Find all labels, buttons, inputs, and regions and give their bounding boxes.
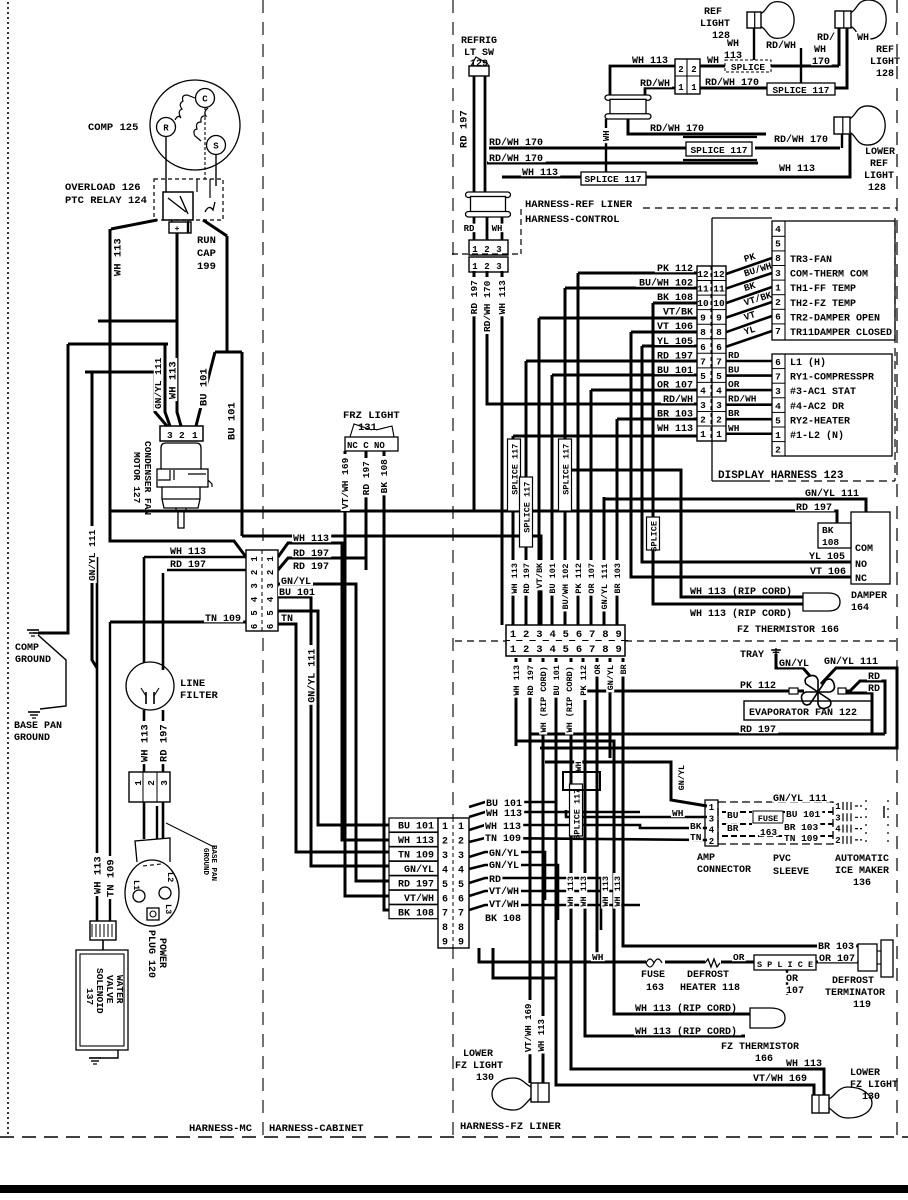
svg-text:1: 1 bbox=[835, 802, 841, 812]
svg-text:10: 10 bbox=[697, 298, 709, 309]
svg-text:1: 1 bbox=[775, 282, 781, 293]
svg-text:GN/YL 111: GN/YL 111 bbox=[600, 564, 610, 610]
svg-text:5: 5 bbox=[250, 610, 260, 615]
svg-text:BU 101: BU 101 bbox=[398, 822, 434, 833]
svg-text:RD: RD bbox=[728, 350, 740, 361]
svg-text:6: 6 bbox=[775, 312, 781, 323]
svg-text:CONDENSER FAN: CONDENSER FAN bbox=[142, 441, 153, 515]
svg-text:TH1-FF TEMP: TH1-FF TEMP bbox=[790, 284, 856, 295]
svg-text:TN 109: TN 109 bbox=[485, 834, 521, 845]
svg-text:LIGHT: LIGHT bbox=[870, 57, 900, 68]
svg-text:WH: WH bbox=[707, 56, 719, 67]
svg-text:1: 1 bbox=[250, 556, 260, 562]
svg-text:2: 2 bbox=[709, 837, 714, 847]
svg-text:2: 2 bbox=[775, 445, 781, 456]
svg-text:FILTER: FILTER bbox=[180, 690, 219, 702]
svg-text:DISPLAY HARNESS 123: DISPLAY HARNESS 123 bbox=[718, 470, 844, 482]
svg-text:ICE MAKER: ICE MAKER bbox=[835, 866, 889, 877]
svg-text:WH 113 (RIP CORD): WH 113 (RIP CORD) bbox=[635, 1003, 737, 1015]
svg-text:2: 2 bbox=[835, 836, 840, 846]
svg-text:WH: WH bbox=[492, 224, 503, 234]
svg-text:9: 9 bbox=[458, 938, 464, 949]
svg-text:WH 113: WH 113 bbox=[139, 724, 151, 762]
svg-text:3: 3 bbox=[536, 644, 542, 656]
svg-text:WH: WH bbox=[728, 423, 740, 434]
svg-text:2: 2 bbox=[691, 65, 696, 75]
svg-text:WH 113: WH 113 bbox=[510, 563, 520, 594]
svg-text:7: 7 bbox=[775, 326, 781, 337]
svg-text:1: 1 bbox=[472, 245, 478, 255]
svg-text:7: 7 bbox=[716, 356, 722, 367]
svg-text:WH 113: WH 113 bbox=[497, 280, 508, 315]
svg-text:GN/YL 111: GN/YL 111 bbox=[773, 793, 827, 805]
svg-text:WH 113: WH 113 bbox=[632, 56, 668, 67]
svg-text:BR 103: BR 103 bbox=[818, 942, 854, 953]
svg-text:8: 8 bbox=[602, 629, 608, 641]
svg-text:9: 9 bbox=[615, 644, 621, 656]
svg-text:WH 113: WH 113 bbox=[167, 361, 179, 399]
svg-text:RD 197: RD 197 bbox=[796, 503, 832, 514]
svg-text:FRZ LIGHT: FRZ LIGHT bbox=[343, 410, 400, 422]
svg-text:8: 8 bbox=[442, 923, 448, 934]
svg-text:12: 12 bbox=[713, 269, 725, 280]
svg-text:5: 5 bbox=[775, 415, 781, 426]
svg-text:4: 4 bbox=[266, 596, 276, 602]
svg-text:3: 3 bbox=[709, 814, 714, 824]
svg-text:BK: BK bbox=[822, 525, 834, 536]
svg-text:BK 108: BK 108 bbox=[657, 293, 693, 304]
svg-text:4: 4 bbox=[250, 596, 260, 602]
svg-text:VT/WH 169: VT/WH 169 bbox=[524, 1004, 534, 1053]
svg-text:HARNESS-CONTROL: HARNESS-CONTROL bbox=[525, 214, 620, 226]
svg-text:BK 108: BK 108 bbox=[485, 914, 521, 925]
svg-text:1: 1 bbox=[678, 83, 684, 93]
svg-text:TR2-DAMPER OPEN: TR2-DAMPER OPEN bbox=[790, 313, 880, 324]
svg-text:6: 6 bbox=[442, 894, 448, 905]
svg-text:BK 108: BK 108 bbox=[398, 908, 434, 919]
svg-text:REF: REF bbox=[876, 45, 894, 56]
svg-text:RD 197: RD 197 bbox=[526, 665, 536, 696]
svg-text:WH: WH bbox=[727, 39, 739, 50]
svg-text:RD/WH: RD/WH bbox=[766, 40, 796, 52]
svg-text:7: 7 bbox=[589, 644, 595, 656]
svg-text:166: 166 bbox=[755, 1054, 773, 1065]
svg-text:6: 6 bbox=[458, 894, 464, 905]
svg-text:COM-THERM COM: COM-THERM COM bbox=[790, 270, 868, 281]
svg-text:OR 107: OR 107 bbox=[657, 380, 693, 391]
svg-text:OR: OR bbox=[786, 974, 798, 985]
svg-text:GROUND: GROUND bbox=[14, 733, 50, 744]
svg-text:PK 112: PK 112 bbox=[579, 665, 589, 696]
svg-text:PVC: PVC bbox=[773, 854, 791, 865]
svg-text:REFRIG: REFRIG bbox=[461, 36, 497, 47]
svg-text:BU 101: BU 101 bbox=[552, 665, 562, 696]
svg-text:RD/WH: RD/WH bbox=[640, 78, 670, 90]
svg-text:RD: RD bbox=[868, 672, 880, 683]
svg-text:GN/YL: GN/YL bbox=[489, 860, 519, 872]
svg-text:163: 163 bbox=[646, 983, 664, 994]
svg-text:1: 1 bbox=[700, 429, 706, 440]
svg-text:2: 2 bbox=[147, 780, 157, 785]
svg-text:1: 1 bbox=[266, 556, 276, 562]
svg-text:WH: WH bbox=[814, 45, 826, 56]
svg-text:RD/WH 170: RD/WH 170 bbox=[489, 137, 543, 149]
svg-text:BR 103: BR 103 bbox=[613, 563, 623, 594]
svg-text:WH: WH bbox=[602, 130, 612, 141]
svg-text:3: 3 bbox=[458, 851, 464, 862]
svg-text:7: 7 bbox=[442, 909, 448, 920]
svg-text:HARNESS-REF LINER: HARNESS-REF LINER bbox=[525, 199, 633, 211]
svg-text:136: 136 bbox=[853, 878, 871, 889]
svg-text:2: 2 bbox=[442, 836, 448, 847]
svg-text:4: 4 bbox=[549, 629, 555, 641]
svg-text:SPLICE 117: SPLICE 117 bbox=[510, 444, 520, 495]
svg-text:RD/WH: RD/WH bbox=[663, 394, 693, 406]
svg-text:PTC RELAY 124: PTC RELAY 124 bbox=[65, 195, 147, 207]
svg-text:4: 4 bbox=[709, 826, 715, 836]
svg-text:6: 6 bbox=[775, 357, 781, 368]
svg-text:WH 113: WH 113 bbox=[485, 822, 521, 833]
svg-text:4: 4 bbox=[549, 644, 555, 656]
svg-text:SPLICE 117: SPLICE 117 bbox=[584, 174, 641, 185]
svg-text:BASE PAN: BASE PAN bbox=[209, 845, 217, 881]
svg-text:NO: NO bbox=[855, 560, 867, 571]
svg-text:DEFROST: DEFROST bbox=[687, 970, 729, 981]
svg-text:3: 3 bbox=[167, 430, 173, 441]
svg-text:164: 164 bbox=[851, 603, 869, 614]
svg-text:BR 103: BR 103 bbox=[657, 410, 693, 421]
svg-text:WH 113: WH 113 bbox=[786, 1059, 822, 1070]
svg-text:199: 199 bbox=[197, 261, 216, 273]
svg-text:2: 2 bbox=[700, 415, 706, 426]
svg-text:BU 101: BU 101 bbox=[226, 402, 238, 440]
svg-text:BU 101: BU 101 bbox=[279, 588, 315, 599]
svg-text:3: 3 bbox=[266, 583, 276, 588]
svg-text:RD 197: RD 197 bbox=[469, 280, 480, 315]
svg-text:2: 2 bbox=[484, 262, 489, 272]
svg-text:GN/YL: GN/YL bbox=[281, 576, 311, 588]
svg-text:WH: WH bbox=[574, 761, 584, 771]
svg-text:CONNECTOR: CONNECTOR bbox=[697, 865, 751, 876]
svg-text:1: 1 bbox=[472, 262, 478, 272]
svg-text:WH 113: WH 113 bbox=[537, 1019, 547, 1051]
svg-text:OVERLOAD 126: OVERLOAD 126 bbox=[65, 182, 141, 194]
svg-text:170: 170 bbox=[812, 57, 830, 68]
svg-text:GN/YL 111: GN/YL 111 bbox=[805, 488, 859, 500]
svg-text:4: 4 bbox=[716, 385, 722, 396]
svg-text:2: 2 bbox=[458, 836, 464, 847]
svg-text:HARNESS-FZ LINER: HARNESS-FZ LINER bbox=[460, 1121, 562, 1133]
svg-text:GN/YL 111: GN/YL 111 bbox=[306, 649, 318, 703]
svg-text:WH 113: WH 113 bbox=[398, 836, 434, 847]
svg-text:AMP: AMP bbox=[697, 853, 715, 864]
svg-text:DEFROST: DEFROST bbox=[832, 976, 874, 987]
svg-text:VT/WH 169: VT/WH 169 bbox=[340, 457, 351, 509]
svg-text:BU 101: BU 101 bbox=[657, 366, 693, 377]
svg-text:LOWER: LOWER bbox=[463, 1049, 493, 1060]
svg-text:130: 130 bbox=[476, 1073, 494, 1084]
svg-text:9: 9 bbox=[615, 629, 621, 641]
svg-text:PK 112: PK 112 bbox=[657, 264, 693, 275]
svg-text:GROUND: GROUND bbox=[201, 848, 209, 876]
svg-text:128: 128 bbox=[868, 183, 886, 194]
svg-text:2: 2 bbox=[266, 570, 276, 575]
svg-text:11: 11 bbox=[697, 284, 709, 295]
svg-text:RD 197: RD 197 bbox=[458, 110, 470, 148]
svg-text:1: 1 bbox=[134, 780, 144, 786]
svg-text:RD: RD bbox=[489, 875, 501, 886]
svg-text:AUTOMATIC: AUTOMATIC bbox=[835, 854, 889, 865]
svg-text:107: 107 bbox=[786, 986, 804, 997]
svg-text:1: 1 bbox=[442, 822, 448, 833]
svg-text:3: 3 bbox=[496, 245, 501, 255]
svg-text:1: 1 bbox=[510, 629, 516, 641]
svg-text:5: 5 bbox=[700, 371, 706, 382]
svg-text:129: 129 bbox=[470, 59, 488, 70]
svg-text:VT/WH: VT/WH bbox=[404, 893, 434, 905]
svg-text:TRAY: TRAY bbox=[740, 650, 764, 661]
svg-text:2: 2 bbox=[179, 430, 185, 441]
svg-text:11: 11 bbox=[713, 284, 725, 295]
svg-text:3: 3 bbox=[775, 386, 781, 397]
svg-text:BASE PAN: BASE PAN bbox=[14, 721, 62, 732]
svg-text:HEATER 118: HEATER 118 bbox=[680, 983, 740, 994]
svg-text:2: 2 bbox=[523, 629, 529, 641]
svg-text:GN/YL 111: GN/YL 111 bbox=[824, 656, 878, 668]
svg-text:NC C NO: NC C NO bbox=[347, 441, 385, 451]
svg-text:SPLICE 117: SPLICE 117 bbox=[522, 482, 532, 533]
svg-text:8: 8 bbox=[602, 644, 608, 656]
svg-text:WH 113: WH 113 bbox=[579, 876, 589, 907]
svg-text:LIGHT: LIGHT bbox=[864, 171, 894, 182]
svg-text:R: R bbox=[163, 124, 169, 134]
svg-text:1: 1 bbox=[510, 644, 516, 656]
svg-text:TN 109: TN 109 bbox=[784, 833, 819, 844]
svg-text:7: 7 bbox=[458, 909, 464, 920]
svg-text:3: 3 bbox=[835, 813, 840, 823]
svg-text:FUSE: FUSE bbox=[758, 814, 778, 824]
svg-text:6: 6 bbox=[576, 629, 582, 641]
svg-text:WH 113: WH 113 bbox=[566, 876, 576, 907]
svg-text:SPLICE 117: SPLICE 117 bbox=[772, 85, 829, 96]
svg-text:6: 6 bbox=[576, 644, 582, 656]
svg-text:4: 4 bbox=[442, 865, 448, 876]
svg-text:RD 197: RD 197 bbox=[293, 549, 329, 560]
svg-text:BU: BU bbox=[728, 365, 740, 376]
svg-text:WH 113: WH 113 bbox=[779, 164, 815, 175]
svg-text:TERMINATOR: TERMINATOR bbox=[825, 988, 885, 999]
svg-text:OR: OR bbox=[593, 663, 603, 674]
svg-text:5: 5 bbox=[775, 239, 781, 250]
svg-text:5: 5 bbox=[442, 880, 448, 891]
svg-text:163: 163 bbox=[760, 827, 777, 838]
svg-text:5: 5 bbox=[716, 371, 722, 382]
svg-text:RD: RD bbox=[868, 684, 880, 695]
svg-text:RD 197: RD 197 bbox=[657, 351, 693, 362]
svg-text:OR: OR bbox=[733, 952, 745, 963]
svg-text:3: 3 bbox=[716, 400, 722, 411]
svg-text:7: 7 bbox=[775, 372, 781, 383]
svg-text:TN 109: TN 109 bbox=[205, 614, 241, 625]
svg-text:9: 9 bbox=[442, 938, 448, 949]
svg-text:137: 137 bbox=[84, 988, 95, 1005]
svg-text:8: 8 bbox=[700, 327, 706, 338]
svg-text:4: 4 bbox=[775, 401, 781, 412]
svg-text:LT SW: LT SW bbox=[464, 48, 494, 59]
svg-text:FZ THERMISTOR 166: FZ THERMISTOR 166 bbox=[737, 625, 839, 636]
svg-text:TH2-FZ TEMP: TH2-FZ TEMP bbox=[790, 299, 856, 310]
svg-text:5: 5 bbox=[563, 629, 569, 641]
svg-text:GN/YL 111: GN/YL 111 bbox=[153, 357, 164, 409]
svg-text:9: 9 bbox=[716, 313, 722, 324]
svg-text:1: 1 bbox=[691, 83, 697, 93]
svg-text:RY2-HEATER: RY2-HEATER bbox=[790, 416, 850, 427]
svg-text:2: 2 bbox=[523, 644, 529, 656]
svg-text:VT/WH: VT/WH bbox=[489, 886, 519, 898]
svg-text:+: + bbox=[175, 225, 180, 234]
svg-text:WH: WH bbox=[857, 33, 869, 44]
svg-text:SPLICE: SPLICE bbox=[731, 62, 766, 73]
svg-text:RD/WH 170: RD/WH 170 bbox=[705, 77, 759, 89]
svg-text:WH 113 (RIP CORD): WH 113 (RIP CORD) bbox=[635, 1026, 737, 1038]
svg-text:TN: TN bbox=[281, 614, 293, 625]
svg-text:EVAPORATOR FAN 122: EVAPORATOR FAN 122 bbox=[749, 708, 857, 719]
svg-text:2: 2 bbox=[678, 65, 683, 75]
svg-text:1: 1 bbox=[775, 430, 781, 441]
svg-text:RD/WH 170: RD/WH 170 bbox=[489, 153, 543, 165]
svg-text:HARNESS-CABINET: HARNESS-CABINET bbox=[269, 1123, 364, 1135]
svg-text:1: 1 bbox=[709, 803, 715, 813]
svg-text:TR3-FAN: TR3-FAN bbox=[790, 255, 832, 266]
svg-text:COMP: COMP bbox=[15, 643, 39, 654]
svg-text:WH (RIP CORD): WH (RIP CORD) bbox=[565, 666, 575, 732]
svg-text:10: 10 bbox=[713, 298, 725, 309]
svg-text:#1-L2 (N): #1-L2 (N) bbox=[790, 430, 844, 442]
svg-text:6: 6 bbox=[716, 342, 722, 353]
svg-text:S P L I C E: S P L I C E bbox=[757, 960, 813, 970]
svg-text:8: 8 bbox=[775, 253, 781, 264]
svg-text:RY1-COMPRESSPR: RY1-COMPRESSPR bbox=[790, 373, 874, 384]
svg-text:6: 6 bbox=[250, 624, 260, 629]
svg-text:5: 5 bbox=[458, 880, 464, 891]
svg-text:WH 113 (RIP CORD): WH 113 (RIP CORD) bbox=[690, 608, 792, 620]
svg-text:BR: BR bbox=[728, 408, 740, 419]
svg-text:REF: REF bbox=[704, 7, 722, 18]
svg-text:WH 113: WH 113 bbox=[112, 238, 124, 276]
svg-text:7: 7 bbox=[589, 629, 595, 641]
svg-text:PK 112: PK 112 bbox=[740, 681, 776, 692]
svg-text:CAP: CAP bbox=[197, 248, 216, 260]
svg-text:MOTOR 127: MOTOR 127 bbox=[131, 452, 142, 504]
svg-text:TR11DAMPER CLOSED: TR11DAMPER CLOSED bbox=[790, 328, 892, 339]
svg-text:BR 103: BR 103 bbox=[784, 822, 819, 833]
svg-text:3: 3 bbox=[700, 400, 706, 411]
svg-text:WH 113: WH 113 bbox=[293, 534, 329, 545]
svg-text:FUSE: FUSE bbox=[641, 970, 665, 981]
svg-text:VT 106: VT 106 bbox=[657, 322, 693, 333]
svg-text:1: 1 bbox=[716, 429, 722, 440]
svg-text:8: 8 bbox=[716, 327, 722, 338]
svg-text:BU/WH 102: BU/WH 102 bbox=[561, 564, 571, 610]
svg-text:RD/WH 170: RD/WH 170 bbox=[650, 123, 704, 135]
svg-text:RD 197: RD 197 bbox=[740, 725, 776, 736]
svg-text:GN/YL: GN/YL bbox=[677, 765, 687, 791]
svg-text:WH 113: WH 113 bbox=[522, 168, 558, 179]
svg-text:RD 197: RD 197 bbox=[170, 560, 206, 571]
svg-text:FZ LIGHT: FZ LIGHT bbox=[455, 1061, 503, 1072]
svg-text:BK 108: BK 108 bbox=[379, 459, 390, 494]
svg-text:PK 112: PK 112 bbox=[574, 563, 584, 594]
svg-text:VT/BK: VT/BK bbox=[663, 307, 693, 319]
svg-text:TN 109: TN 109 bbox=[398, 851, 434, 862]
svg-text:WH (RIP CORD): WH (RIP CORD) bbox=[539, 666, 549, 732]
svg-text:128: 128 bbox=[876, 69, 894, 80]
svg-text:6: 6 bbox=[266, 624, 276, 629]
svg-text:L2: L2 bbox=[165, 872, 175, 882]
svg-text:OR 107: OR 107 bbox=[587, 563, 597, 594]
svg-text:WH 113: WH 113 bbox=[92, 856, 104, 894]
svg-text:L1: L1 bbox=[131, 880, 141, 890]
svg-text:RD/WH 170: RD/WH 170 bbox=[482, 280, 493, 332]
svg-text:BR: BR bbox=[619, 663, 629, 674]
svg-text:BU: BU bbox=[727, 810, 739, 821]
svg-text:RD: RD bbox=[464, 224, 475, 234]
svg-text:9: 9 bbox=[700, 313, 706, 324]
svg-text:WH 113: WH 113 bbox=[486, 809, 522, 820]
svg-text:RD 197: RD 197 bbox=[158, 724, 170, 762]
svg-text:3: 3 bbox=[775, 268, 781, 279]
svg-text:FZ LIGHT: FZ LIGHT bbox=[850, 1080, 898, 1091]
svg-text:8: 8 bbox=[458, 923, 464, 934]
svg-text:RD 197: RD 197 bbox=[293, 562, 329, 573]
svg-text:LINE: LINE bbox=[180, 678, 205, 690]
svg-text:GN/YL 111: GN/YL 111 bbox=[87, 529, 98, 581]
svg-text:1: 1 bbox=[192, 430, 198, 441]
svg-text:OR: OR bbox=[728, 379, 740, 390]
svg-text:WH 113 (RIP CORD): WH 113 (RIP CORD) bbox=[690, 586, 792, 598]
svg-text:C: C bbox=[202, 95, 208, 105]
svg-text:WH: WH bbox=[672, 808, 684, 819]
svg-text:S: S bbox=[213, 142, 219, 152]
svg-text:FZ THERMISTOR: FZ THERMISTOR bbox=[721, 1042, 799, 1053]
svg-text:2: 2 bbox=[484, 245, 489, 255]
svg-text:5: 5 bbox=[266, 610, 276, 615]
svg-text:BK: BK bbox=[690, 821, 702, 832]
svg-text:REF: REF bbox=[870, 159, 888, 170]
svg-text:108: 108 bbox=[822, 537, 839, 548]
svg-text:3: 3 bbox=[496, 262, 501, 272]
svg-text:TN: TN bbox=[690, 832, 702, 843]
svg-text:VT/WH: VT/WH bbox=[489, 899, 519, 911]
svg-text:GN/YL: GN/YL bbox=[404, 864, 434, 876]
svg-text:VT/WH 169: VT/WH 169 bbox=[753, 1073, 807, 1085]
svg-text:WH 113: WH 113 bbox=[613, 876, 623, 907]
svg-text:RD/: RD/ bbox=[817, 32, 835, 44]
svg-text:RD/WH 170: RD/WH 170 bbox=[774, 134, 828, 146]
svg-text:#4-AC2 DR: #4-AC2 DR bbox=[790, 402, 844, 413]
svg-text:LOWER: LOWER bbox=[850, 1068, 880, 1079]
svg-text:4: 4 bbox=[775, 224, 781, 235]
svg-text:2: 2 bbox=[775, 297, 781, 308]
svg-text:DAMPER: DAMPER bbox=[851, 591, 887, 602]
svg-text:VT 106: VT 106 bbox=[810, 567, 846, 578]
svg-text:POWER: POWER bbox=[156, 938, 167, 968]
svg-text:2: 2 bbox=[716, 415, 722, 426]
svg-text:SLEEVE: SLEEVE bbox=[773, 867, 809, 878]
svg-text:BU/WH 102: BU/WH 102 bbox=[639, 278, 693, 290]
svg-text:4: 4 bbox=[835, 825, 841, 835]
svg-text:YL 105: YL 105 bbox=[809, 552, 845, 563]
